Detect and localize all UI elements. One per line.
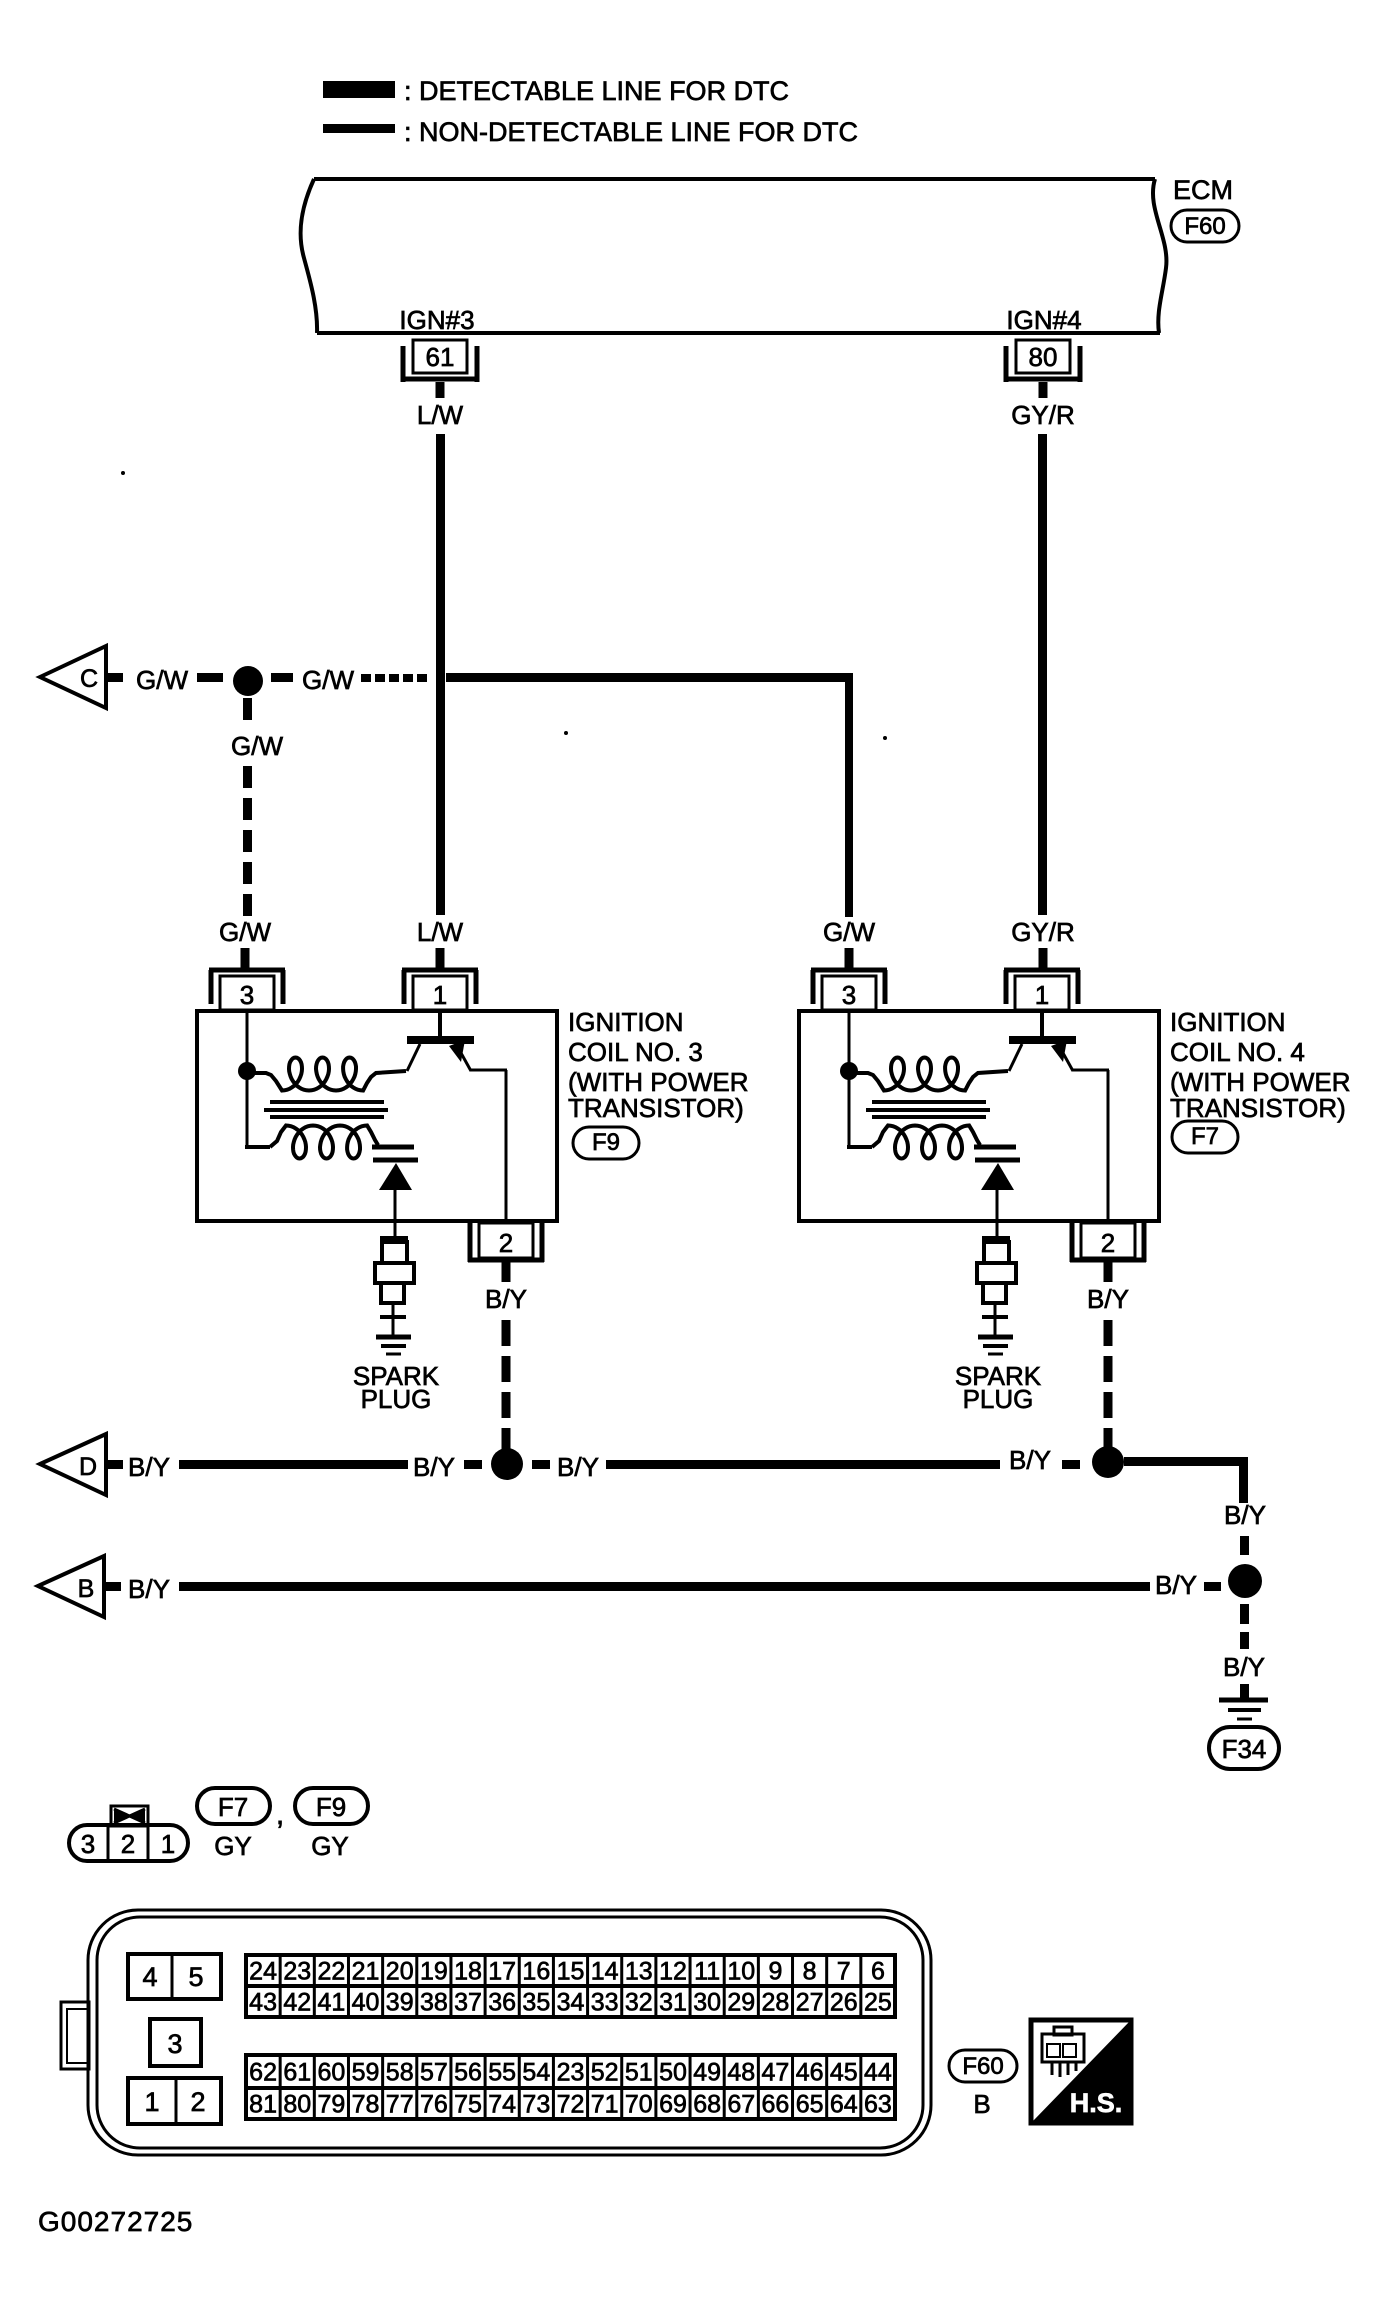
svg-text:67: 67 <box>727 2091 755 2119</box>
svg-text:2: 2 <box>190 2087 205 2117</box>
svg-text:72: 72 <box>557 2091 585 2119</box>
svg-text:COIL NO. 3: COIL NO. 3 <box>568 1037 703 1067</box>
svg-text:12: 12 <box>659 1958 687 1986</box>
svg-text:GY: GY <box>214 1831 252 1861</box>
svg-text:9: 9 <box>768 1958 782 1986</box>
svg-text:G00272725: G00272725 <box>38 2206 193 2237</box>
svg-text:G/W: G/W <box>219 917 271 947</box>
svg-text:F7: F7 <box>1191 1123 1219 1150</box>
svg-text:B/Y: B/Y <box>557 1452 599 1482</box>
svg-text:10: 10 <box>727 1958 755 1986</box>
svg-text:75: 75 <box>454 2091 482 2119</box>
svg-text:3: 3 <box>842 980 856 1010</box>
svg-text:37: 37 <box>454 1989 482 2017</box>
svg-text:28: 28 <box>762 1989 790 2017</box>
svg-text:TRANSISTOR): TRANSISTOR) <box>568 1093 744 1123</box>
svg-text:G/W: G/W <box>136 665 188 695</box>
svg-text:16: 16 <box>522 1958 550 1986</box>
svg-text:33: 33 <box>591 1989 619 2017</box>
svg-text:24: 24 <box>249 1958 277 1986</box>
svg-text:B: B <box>78 1575 95 1603</box>
svg-text:IGN#3: IGN#3 <box>399 305 474 335</box>
svg-text:54: 54 <box>522 2059 550 2087</box>
svg-text:IGNITION: IGNITION <box>568 1007 684 1037</box>
svg-text:L/W: L/W <box>417 400 464 430</box>
svg-text:51: 51 <box>625 2059 653 2087</box>
svg-text:F9: F9 <box>592 1129 620 1156</box>
svg-text:F34: F34 <box>1222 1734 1267 1764</box>
svg-text:: DETECTABLE LINE FOR DTC: : DETECTABLE LINE FOR DTC <box>404 76 789 106</box>
svg-text:45: 45 <box>830 2059 858 2087</box>
svg-text:PLUG: PLUG <box>963 1384 1034 1414</box>
svg-text:18: 18 <box>454 1958 482 1986</box>
svg-text:59: 59 <box>352 2059 380 2087</box>
svg-text:COIL NO. 4: COIL NO. 4 <box>1170 1037 1305 1067</box>
svg-text:2: 2 <box>1101 1228 1115 1258</box>
svg-text:B/Y: B/Y <box>128 1574 170 1604</box>
svg-text:80: 80 <box>283 2091 311 2119</box>
svg-text:38: 38 <box>420 1989 448 2017</box>
svg-text:6: 6 <box>871 1958 885 1986</box>
svg-text:1: 1 <box>433 980 447 1010</box>
svg-text:B/Y: B/Y <box>1009 1445 1051 1475</box>
svg-text:43: 43 <box>249 1989 277 2017</box>
svg-text:8: 8 <box>803 1958 817 1986</box>
svg-text:2: 2 <box>121 1829 135 1859</box>
svg-text:62: 62 <box>249 2059 277 2087</box>
svg-text:1: 1 <box>1035 980 1049 1010</box>
svg-text:B/Y: B/Y <box>413 1452 455 1482</box>
svg-text:49: 49 <box>693 2059 721 2087</box>
svg-text:ECM: ECM <box>1173 175 1233 205</box>
svg-text:GY/R: GY/R <box>1011 400 1075 430</box>
svg-text:5: 5 <box>188 1962 203 1992</box>
svg-text:C: C <box>80 665 98 693</box>
svg-text:73: 73 <box>522 2091 550 2119</box>
svg-text:IGN#4: IGN#4 <box>1006 305 1081 335</box>
svg-text:55: 55 <box>488 2059 516 2087</box>
svg-text:80: 80 <box>1029 342 1058 372</box>
svg-text:21: 21 <box>352 1958 380 1986</box>
svg-text:H.S.: H.S. <box>1070 2088 1123 2118</box>
svg-text:2: 2 <box>499 1228 513 1258</box>
svg-text:78: 78 <box>352 2091 380 2119</box>
svg-text:B/Y: B/Y <box>1224 1500 1266 1530</box>
svg-text:3: 3 <box>167 2029 182 2059</box>
svg-text:69: 69 <box>659 2091 687 2119</box>
svg-text:F60: F60 <box>962 2053 1003 2080</box>
svg-text:TRANSISTOR): TRANSISTOR) <box>1170 1093 1346 1123</box>
svg-text:23: 23 <box>283 1958 311 1986</box>
svg-text:G/W: G/W <box>823 917 875 947</box>
svg-text:60: 60 <box>317 2059 345 2087</box>
svg-text:65: 65 <box>796 2091 824 2119</box>
svg-text:B/Y: B/Y <box>485 1284 527 1314</box>
svg-text:B: B <box>973 2089 990 2119</box>
svg-text:20: 20 <box>386 1958 414 1986</box>
svg-text:3: 3 <box>81 1829 95 1859</box>
svg-text:76: 76 <box>420 2091 448 2119</box>
svg-text:G/W: G/W <box>231 731 283 761</box>
svg-text:68: 68 <box>693 2091 721 2119</box>
svg-text:: NON-DETECTABLE LINE FOR DTC: : NON-DETECTABLE LINE FOR DTC <box>404 117 858 147</box>
svg-text:36: 36 <box>488 1989 516 2017</box>
svg-text:B/Y: B/Y <box>128 1452 170 1482</box>
svg-text:48: 48 <box>727 2059 755 2087</box>
svg-text:GY/R: GY/R <box>1011 917 1075 947</box>
svg-text:D: D <box>79 1453 97 1481</box>
svg-text:IGNITION: IGNITION <box>1170 1007 1286 1037</box>
svg-text:61: 61 <box>283 2059 311 2087</box>
svg-text:71: 71 <box>591 2091 619 2119</box>
svg-text:32: 32 <box>625 1989 653 2017</box>
svg-text:63: 63 <box>864 2091 892 2119</box>
svg-text:57: 57 <box>420 2059 448 2087</box>
svg-text:23: 23 <box>557 2059 585 2087</box>
svg-text:39: 39 <box>386 1989 414 2017</box>
svg-text:56: 56 <box>454 2059 482 2087</box>
svg-text:4: 4 <box>142 1962 157 1992</box>
svg-text:40: 40 <box>352 1989 380 2017</box>
svg-text:26: 26 <box>830 1989 858 2017</box>
svg-text:74: 74 <box>488 2091 516 2119</box>
svg-text:11: 11 <box>694 1958 720 1986</box>
svg-text:22: 22 <box>317 1958 345 1986</box>
svg-text:29: 29 <box>727 1989 755 2017</box>
svg-text:64: 64 <box>830 2091 858 2119</box>
svg-text:G/W: G/W <box>302 665 354 695</box>
svg-text:F60: F60 <box>1184 213 1225 240</box>
svg-text:B/Y: B/Y <box>1087 1284 1129 1314</box>
svg-text:34: 34 <box>557 1989 585 2017</box>
svg-text:3: 3 <box>240 980 254 1010</box>
svg-text:B/Y: B/Y <box>1155 1570 1197 1600</box>
svg-text:42: 42 <box>283 1989 311 2017</box>
svg-text:44: 44 <box>864 2059 892 2087</box>
svg-text:61: 61 <box>426 342 455 372</box>
svg-text:27: 27 <box>796 1989 824 2017</box>
svg-text:13: 13 <box>625 1958 653 1986</box>
svg-text:25: 25 <box>864 1989 892 2017</box>
svg-text:GY: GY <box>311 1831 349 1861</box>
svg-text:7: 7 <box>837 1958 851 1986</box>
svg-text:B/Y: B/Y <box>1223 1652 1265 1682</box>
svg-text:81: 81 <box>249 2091 277 2119</box>
svg-text:52: 52 <box>591 2059 619 2087</box>
svg-text:47: 47 <box>762 2059 790 2087</box>
svg-text:17: 17 <box>488 1958 516 1986</box>
svg-text:14: 14 <box>591 1958 619 1986</box>
svg-text:70: 70 <box>625 2091 653 2119</box>
svg-text:15: 15 <box>557 1958 585 1986</box>
svg-text:66: 66 <box>762 2091 790 2119</box>
svg-text:1: 1 <box>144 2087 159 2117</box>
svg-text:41: 41 <box>317 1989 345 2017</box>
svg-text:58: 58 <box>386 2059 414 2087</box>
svg-text:1: 1 <box>161 1829 175 1859</box>
svg-text:46: 46 <box>796 2059 824 2087</box>
svg-text:30: 30 <box>693 1989 721 2017</box>
svg-text:F9: F9 <box>316 1792 346 1822</box>
svg-text:77: 77 <box>386 2091 414 2119</box>
svg-text:50: 50 <box>659 2059 687 2087</box>
svg-text:F7: F7 <box>218 1792 248 1822</box>
svg-text:35: 35 <box>522 1989 550 2017</box>
svg-text:PLUG: PLUG <box>361 1384 432 1414</box>
svg-text:31: 31 <box>659 1989 687 2017</box>
svg-text:19: 19 <box>420 1958 448 1986</box>
svg-text:L/W: L/W <box>417 917 464 947</box>
svg-text:79: 79 <box>317 2091 345 2119</box>
svg-text:,: , <box>276 1798 284 1831</box>
